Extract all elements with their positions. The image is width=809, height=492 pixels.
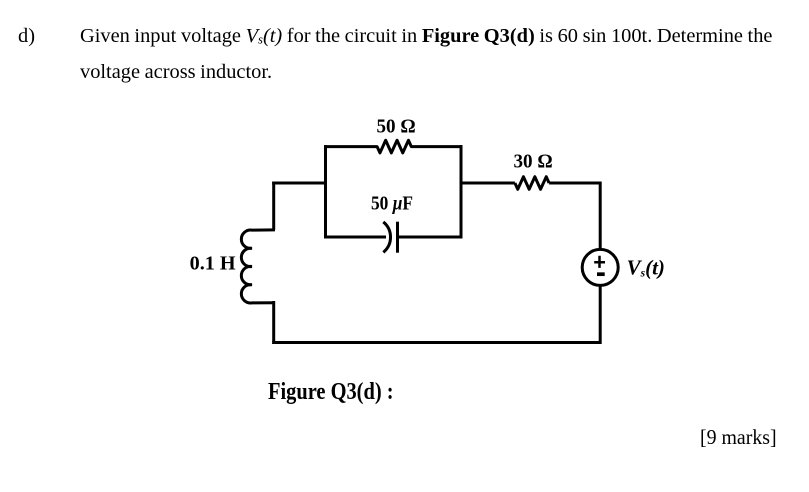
wire: lower-left vertical (272, 301, 275, 344)
voltage source plus sign (594, 256, 605, 268)
wire: right lower vertical (599, 286, 602, 344)
voltage source minus sign (597, 272, 605, 276)
svg-text:Vs(t): Vs(t) (627, 256, 665, 280)
wire: 30 ohm to top-right corner and down (549, 183, 600, 249)
question text line 1 (18, 26, 35, 46)
voltage source VS1 circle (582, 249, 618, 285)
capacitor C1 50 uF: straight plate (396, 222, 399, 253)
wire: box right edge to 30 ohm resistor (460, 182, 515, 185)
wire: box bottom edge left segment (324, 236, 386, 239)
wire: node A horizontal (left vertical to box left edge) (272, 182, 327, 185)
svg-text:50 μF: 50 μF (371, 193, 413, 215)
resistor R2 30 ohm (515, 177, 549, 190)
svg-text:30 Ω: 30 Ω (514, 151, 553, 173)
wire: bottom (272, 341, 601, 344)
inductor L1 0.1 H (241, 230, 275, 303)
svg-text:0.1 H: 0.1 H (190, 252, 236, 274)
capacitor C1 50 uF: curved plate (383, 222, 390, 252)
marks (700, 427, 777, 448)
figure caption (268, 380, 394, 404)
wire: box bottom edge right segment (398, 236, 463, 239)
parallel box left edge (324, 145, 327, 238)
resistor R1 50 ohm (on box top edge) (324, 140, 463, 153)
question text line 2 (80, 62, 272, 82)
wire: upper-left vertical (272, 182, 275, 230)
svg-text:50 Ω: 50 Ω (377, 115, 416, 137)
parallel box right edge (460, 145, 463, 238)
